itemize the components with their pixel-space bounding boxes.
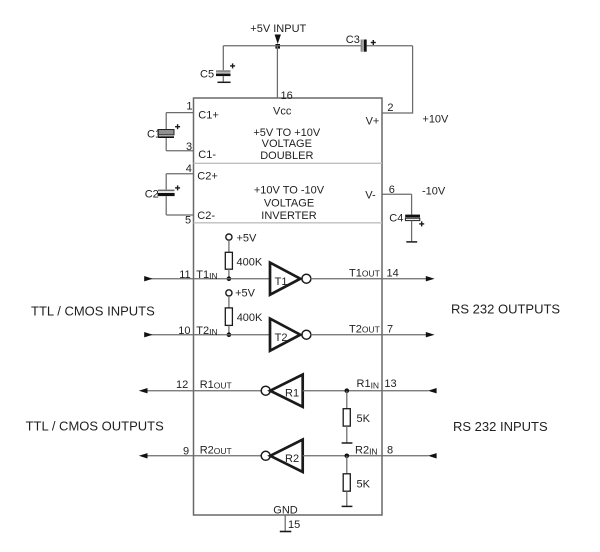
driver T2: [270, 319, 300, 351]
wire T2 output line: [311, 334, 427, 336]
divider (inverter/drivers): [194, 222, 383, 224]
svg-text:RS 232 INPUTS: RS 232 INPUTS: [453, 419, 548, 434]
receiver R2: [270, 440, 303, 472]
wire C2 to pin5: [165, 196, 167, 215]
pin 4 stub: [166, 173, 193, 175]
svg-text:INVERTER: INVERTER: [261, 210, 316, 222]
arrow into +5V node: [275, 35, 281, 45]
plus C2: [175, 185, 180, 190]
pin 6 stub: [382, 193, 412, 195]
svg-text:5: 5: [185, 214, 191, 226]
ground (R1 5K): [342, 442, 353, 444]
node T1 input: [227, 276, 232, 281]
svg-text:8: 8: [387, 445, 393, 457]
wire R1 output line: [146, 390, 261, 392]
driver T1: [270, 263, 300, 295]
pin 5 stub: [166, 214, 193, 216]
svg-text:400K: 400K: [237, 312, 263, 324]
svg-text:13: 13: [384, 378, 396, 390]
wire T2 input line: [145, 334, 270, 336]
capacitor C5: [216, 70, 231, 82]
node R2 input: [345, 454, 350, 459]
arrow R2 output: [139, 453, 148, 458]
svg-text:VOLTAGE: VOLTAGE: [262, 138, 312, 150]
svg-text:-10V: -10V: [422, 185, 446, 197]
wire T1 output line: [311, 278, 427, 280]
wire R2 output line: [146, 455, 261, 457]
bubble R1: [261, 386, 270, 395]
svg-text:V+: V+: [366, 116, 380, 128]
svg-text:6: 6: [389, 184, 395, 196]
wire T1 input line: [145, 278, 270, 280]
svg-text:+5V: +5V: [237, 232, 258, 244]
svg-text:RS 232 OUTPUTS: RS 232 OUTPUTS: [451, 302, 560, 317]
ground (pin 15): [280, 531, 292, 533]
arrow T1 output: [426, 276, 435, 281]
svg-text:400K: 400K: [237, 257, 263, 269]
svg-text:T2: T2: [275, 332, 288, 344]
svg-text:+10V: +10V: [422, 114, 449, 126]
arrow R1 output: [139, 388, 148, 393]
svg-text:VOLTAGE: VOLTAGE: [264, 198, 314, 210]
svg-text:5K: 5K: [357, 479, 371, 491]
svg-text:+5V INPUT: +5V INPUT: [250, 23, 306, 35]
arrow T2 output: [426, 332, 435, 337]
svg-text:+5V: +5V: [235, 288, 256, 300]
wire R to node (T2): [228, 325, 230, 334]
svg-text:9: 9: [183, 446, 189, 458]
bubble R2: [261, 451, 270, 460]
wire node to 5K (R2): [346, 456, 348, 474]
svg-text:T2OUT: T2OUT: [349, 323, 380, 335]
svg-text:C3: C3: [346, 34, 360, 46]
resistor 400K (T2): [225, 308, 232, 326]
terminal +5V (T2 pull-up): [226, 290, 232, 296]
plus C1: [175, 124, 180, 129]
svg-text:12: 12: [176, 379, 188, 391]
capacitor C4: [405, 215, 420, 242]
receiver R1: [270, 375, 303, 407]
svg-text:R1OUT: R1OUT: [200, 379, 232, 391]
svg-text:C5: C5: [200, 69, 214, 81]
svg-text:10: 10: [178, 325, 190, 337]
bubble T1: [302, 274, 311, 283]
wire terminal to R (T2): [228, 296, 230, 308]
svg-text:GND: GND: [273, 505, 298, 517]
svg-text:T2IN: T2IN: [196, 325, 217, 337]
svg-text:C1: C1: [147, 129, 161, 141]
resistor 5K (R1): [343, 409, 350, 426]
wire node to 5K (R1): [346, 391, 348, 409]
wire 5K to gnd (R2): [346, 491, 348, 506]
plus C3: [371, 40, 376, 45]
capacitor C3: [361, 40, 367, 52]
arrow R1 input: [428, 388, 437, 393]
svg-text:T1: T1: [275, 276, 288, 288]
svg-text:TTL / CMOS OUTPUTS: TTL / CMOS OUTPUTS: [26, 419, 165, 434]
svg-text:TTL / CMOS INPUTS: TTL / CMOS INPUTS: [31, 304, 155, 319]
resistor 400K (T1): [225, 252, 232, 269]
capacitor C1: [158, 130, 174, 139]
wire node down to pin16: [276, 46, 278, 98]
bubble T2: [302, 330, 311, 339]
wire 5K to gnd (R1): [346, 426, 348, 442]
svg-text:T1IN: T1IN: [196, 269, 217, 281]
divider (doubler/inverter): [194, 162, 383, 164]
node T2 input: [227, 332, 232, 337]
svg-text:T1OUT: T1OUT: [349, 267, 380, 279]
wire terminal to R (T1): [228, 240, 230, 252]
svg-text:7: 7: [387, 323, 393, 335]
capacitor C2: [158, 190, 175, 196]
pin 3 stub: [166, 150, 193, 152]
svg-text:C2-: C2-: [197, 210, 215, 222]
node R1 input: [345, 388, 350, 393]
wire R1 input line: [303, 390, 429, 392]
svg-text:16: 16: [281, 90, 293, 102]
svg-text:3: 3: [186, 141, 192, 153]
svg-text:15: 15: [288, 519, 300, 531]
wire down to C5: [222, 46, 224, 71]
wire R to node (T1): [228, 269, 230, 279]
wire pin15: [284, 515, 286, 531]
wire +5V rail left: [223, 45, 361, 47]
svg-text:14: 14: [387, 267, 399, 279]
wire C1 to pin3: [165, 138, 167, 151]
ground (R2 5K): [342, 505, 353, 507]
svg-text:+10V TO -10V: +10V TO -10V: [254, 185, 325, 197]
wire C3 to corner: [367, 45, 413, 47]
svg-text:R2: R2: [285, 453, 299, 465]
svg-text:C1-: C1-: [198, 149, 216, 161]
arrow T2 input: [144, 332, 152, 337]
svg-text:R1IN: R1IN: [357, 378, 380, 390]
svg-text:5K: 5K: [357, 413, 371, 425]
svg-text:1: 1: [186, 101, 192, 113]
svg-text:C2+: C2+: [197, 171, 218, 183]
arrow R2 input: [428, 453, 437, 458]
IC box U1: [194, 98, 383, 515]
wire pin1 to C1: [165, 113, 167, 130]
resistor 5K (R2): [343, 474, 350, 491]
svg-text:11: 11: [179, 269, 190, 281]
svg-text:R2OUT: R2OUT: [200, 445, 232, 457]
wire corner down to pin2: [382, 46, 413, 113]
svg-text:2: 2: [387, 102, 393, 114]
svg-text:V-: V-: [365, 190, 376, 202]
plus C4: [419, 221, 424, 226]
node +5V junction: [275, 44, 280, 49]
wire pin4 to C2: [165, 174, 167, 190]
svg-text:C2: C2: [145, 189, 159, 201]
wire R2 input line: [303, 455, 429, 457]
svg-text:R1: R1: [285, 388, 299, 400]
svg-text:Vcc: Vcc: [273, 106, 292, 118]
wire pin6 to C4: [411, 194, 413, 214]
svg-text:C4: C4: [389, 213, 403, 225]
plus C5: [230, 63, 235, 68]
svg-text:DOUBLER: DOUBLER: [260, 150, 313, 162]
svg-text:R2IN: R2IN: [355, 445, 378, 457]
terminal +5V (T1 pull-up): [226, 234, 232, 240]
svg-text:C1+: C1+: [198, 109, 219, 121]
svg-text:4: 4: [186, 163, 192, 175]
arrow T1 input: [144, 276, 152, 281]
pin 1 stub: [166, 112, 193, 114]
